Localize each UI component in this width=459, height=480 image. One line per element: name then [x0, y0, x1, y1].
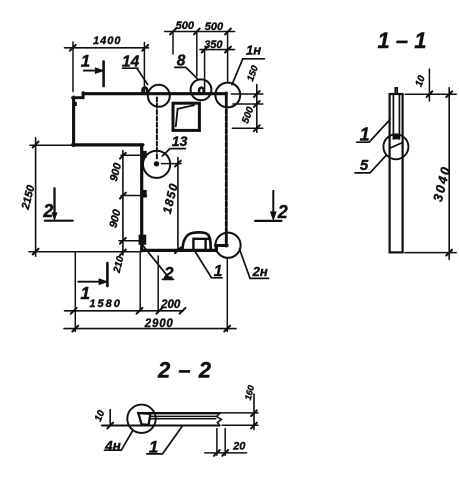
svg-text:1 – 1: 1 – 1 [378, 28, 427, 53]
svg-text:1: 1 [81, 52, 90, 71]
panel outline: shelf edge [73, 143, 143, 146]
anchor loop 8 on top edge [199, 88, 204, 94]
section 2-2 dim 10 [109, 410, 111, 426]
svg-text:210: 210 [112, 255, 127, 275]
svg-text:1400: 1400 [93, 35, 121, 47]
section 2-2 label 4H leader [105, 431, 133, 450]
section 1-1 dim 10 [405, 93, 456, 95]
svg-text:2 – 2: 2 – 2 [157, 358, 212, 383]
dim 1850 [177, 158, 179, 251]
svg-text:10: 10 [93, 408, 108, 423]
svg-text:8: 8 [177, 52, 186, 69]
right dim column: 150 and 500 [256, 85, 258, 133]
panel outline: inner vertical edge [140, 145, 143, 251]
label 2H leader [240, 249, 269, 278]
dim 1400 extension right [143, 43, 145, 93]
panel outline: bottom edge [142, 249, 217, 252]
svg-text:2н: 2н [252, 264, 268, 279]
section 1-1 label 5 leader [355, 156, 386, 173]
svg-text:1: 1 [149, 438, 158, 457]
hidden dashed line [156, 98, 158, 160]
section marker 2 right [272, 191, 274, 214]
section 1-1 weld diagonal [391, 143, 403, 148]
section 2-2 bar bottom + extension [102, 424, 220, 426]
panel outline: top edge [83, 92, 226, 95]
dim 2150 [35, 138, 37, 256]
section 1-1 inner channel [393, 94, 399, 139]
callout circle 1H [215, 83, 240, 108]
section 1-1 label 1 leader [357, 120, 390, 143]
svg-text:13: 13 [172, 133, 188, 149]
label 1 bottom leader [196, 252, 222, 277]
label 13 leader [162, 149, 185, 156]
svg-text:2900: 2900 [144, 318, 174, 330]
plate on inner edge (upper) [142, 151, 147, 158]
svg-text:900: 900 [108, 161, 124, 183]
svg-text:14: 14 [122, 53, 140, 70]
dim 1580/200 line [65, 310, 184, 312]
section 1-1 panel rect [390, 94, 403, 252]
label 14 leader [123, 68, 148, 84]
extension to corner 1H [227, 32, 229, 83]
svg-text:500: 500 [240, 105, 256, 125]
detail square 8 [173, 103, 199, 130]
section 2-2 dim 160 [253, 394, 255, 430]
dim 1400 line [65, 47, 149, 49]
lifting loop 1 [182, 232, 210, 250]
svg-text:2: 2 [163, 264, 174, 283]
panel outline: left edge [72, 97, 75, 146]
svg-text:4н: 4н [104, 439, 121, 454]
section 2-2 inner lines [150, 416, 216, 418]
callout circle 14 [148, 85, 170, 107]
dot anchor 13 [154, 161, 159, 166]
dim 500+500 line [165, 31, 235, 33]
dim 2900 line [64, 328, 236, 330]
nub on left edge [73, 102, 77, 106]
svg-text:500: 500 [205, 21, 224, 33]
callout circle 13 [143, 151, 170, 178]
svg-text:2: 2 [277, 202, 288, 222]
section 2-2 bar top [138, 412, 220, 414]
section marker 1 top [102, 62, 105, 87]
section 1-1 dim 3040 [448, 88, 450, 260]
callout circle 2H [215, 233, 240, 258]
anchor plate 2 at inner corner [139, 235, 147, 245]
label 1H leader [232, 59, 264, 85]
panel outline: right edge dashed part [225, 101, 228, 233]
extension lines to bottom dims [75, 253, 227, 332]
section 2-2 label 1 leader [147, 427, 182, 454]
panel outline: right edge solid bottom part [225, 233, 228, 247]
svg-text:350: 350 [204, 39, 223, 51]
svg-text:1: 1 [214, 263, 223, 280]
section 2-2 callout circle [127, 405, 155, 433]
svg-text:1580: 1580 [89, 298, 121, 310]
svg-text:10: 10 [414, 74, 429, 89]
svg-text:1: 1 [360, 125, 370, 145]
label 2 bottom leader [141, 244, 173, 280]
panel outline: bottom-right corner notch [215, 245, 227, 251]
panel outline: right edge solid top part [225, 93, 228, 101]
svg-text:20: 20 [232, 440, 246, 452]
dim 1400 extension left [72, 42, 74, 92]
svg-text:1н: 1н [246, 43, 261, 58]
section 2-2 break line [217, 413, 222, 425]
anchor loop 14 on top edge [143, 87, 148, 94]
plate on inner edge (middle) [142, 190, 147, 198]
section 1-1 loop stub [395, 88, 397, 94]
svg-text:150: 150 [245, 64, 261, 83]
svg-text:900: 900 [107, 208, 123, 230]
dim 350 line [200, 49, 235, 51]
section 2-2 end anchor 4H [138, 413, 150, 425]
section marker 2 left [53, 188, 55, 214]
section 1-1 callout circle [383, 134, 408, 159]
section marker 1 bottom [106, 263, 109, 286]
section 2-2 dim 20 [217, 429, 225, 456]
svg-text:5: 5 [360, 157, 369, 174]
svg-text:2: 2 [42, 201, 53, 221]
svg-text:500: 500 [176, 20, 195, 32]
svg-text:200: 200 [160, 299, 181, 311]
panel outline: top-left corner step [73, 93, 84, 98]
callout circle 8 [191, 79, 212, 100]
label 8 leader [175, 67, 198, 78]
dim column 900/900/210 [122, 151, 124, 256]
